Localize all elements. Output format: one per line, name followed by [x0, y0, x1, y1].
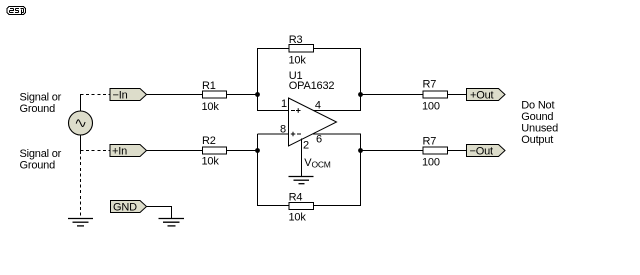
- wire: source bottom stub: [80, 135, 82, 152]
- wire: dashed to -In tag: [81, 94, 111, 96]
- resistor R3 10k: [289, 34, 314, 67]
- svg-text:10k: 10k: [202, 101, 220, 113]
- svg-text:4: 4: [315, 99, 321, 111]
- svg-text:Ground: Ground: [20, 103, 56, 115]
- svg-text:−Out: −Out: [470, 145, 493, 157]
- wire: R1 to node A: [227, 94, 258, 96]
- svg-text:Do Not: Do Not: [521, 99, 554, 111]
- wire: R7 to +Out tag: [448, 94, 467, 96]
- resistor R4 10k: [289, 191, 314, 223]
- ground (below source, dashed): [68, 219, 93, 226]
- svg-text:R7: R7: [423, 135, 437, 147]
- svg-text:Signal or: Signal or: [20, 148, 62, 160]
- svg-text:R2: R2: [202, 135, 216, 147]
- port tag +In: [110, 145, 147, 158]
- wire: pin4 output wire: [314, 110, 362, 112]
- node A junction dot: [255, 92, 260, 97]
- port tag -In: [110, 89, 147, 102]
- wire: pin6 output wire: [313, 133, 361, 135]
- wire: +In tag to R2: [147, 150, 203, 152]
- node (bottom right) junction dot: [358, 148, 363, 153]
- resistor R2 10k: [202, 135, 227, 167]
- label U1 OPA1632: [289, 70, 335, 92]
- label: Signal or Ground (lower input): [20, 148, 62, 172]
- svg-text:R7: R7: [423, 79, 437, 91]
- ground (VOCM): [289, 177, 314, 184]
- svg-text:Unused: Unused: [521, 122, 558, 134]
- ground (GND tag): [159, 219, 185, 226]
- svg-text:R1: R1: [202, 80, 216, 92]
- ESP logo: [7, 7, 25, 15]
- svg-text:10k: 10k: [289, 54, 307, 66]
- svg-text:100: 100: [422, 100, 440, 112]
- wire: pin1 input wire: [258, 110, 289, 112]
- svg-text:2: 2: [303, 140, 309, 152]
- wire: pin8 input wire: [258, 133, 289, 135]
- op-amp U1 OPA1632: [289, 98, 337, 146]
- svg-text:8: 8: [280, 124, 286, 136]
- svg-text:−In: −In: [113, 89, 128, 101]
- wire: R2 to node B: [227, 150, 258, 152]
- svg-text:10k: 10k: [289, 211, 307, 223]
- wire: R7 to -Out tag: [448, 150, 467, 152]
- svg-text:R4: R4: [289, 191, 303, 203]
- wire: bottom feedback loop (R4 loop): [258, 134, 361, 206]
- wire: -In tag to R1: [147, 94, 203, 96]
- source V1 (signal source circle with sine): [69, 111, 93, 135]
- svg-text:Output: Output: [521, 134, 553, 146]
- svg-text:OPA1632: OPA1632: [289, 80, 335, 92]
- wire: top node to R7: [361, 94, 424, 96]
- resistor R1 10k: [202, 80, 227, 113]
- node (top right) junction dot: [358, 92, 363, 97]
- wire: top feedback loop (R3 loop): [258, 48, 361, 111]
- svg-text:+Out: +Out: [470, 89, 493, 101]
- resistor R7 100 (bottom): [422, 135, 448, 168]
- svg-text:Ground: Ground: [20, 159, 56, 171]
- svg-text:Gound: Gound: [521, 111, 553, 123]
- port tag +Out: [467, 89, 506, 102]
- wire: GND tag to ground: [147, 207, 172, 219]
- svg-text:6: 6: [316, 134, 322, 146]
- wire: dashed down to ground: [80, 151, 82, 218]
- resistor R7 100 (top): [422, 79, 448, 113]
- wire: pin2 VOCM wire: [301, 139, 303, 177]
- svg-text:+In: +In: [112, 145, 127, 157]
- svg-text:Signal or: Signal or: [20, 91, 62, 103]
- wire: dashed to +In tag: [81, 150, 111, 152]
- svg-text:GND: GND: [113, 201, 137, 213]
- svg-text:R3: R3: [289, 34, 303, 46]
- wire: source top stub: [80, 94, 82, 112]
- svg-text:1: 1: [281, 98, 287, 110]
- wire: left vertical to bottom loop: [257, 134, 259, 206]
- svg-text:10k: 10k: [202, 155, 220, 167]
- label: Signal or Ground (upper input): [20, 91, 62, 115]
- wire: bottom node to R7: [361, 150, 424, 152]
- port tag GND: [111, 201, 147, 214]
- note: Do Not Gound Unused Output: [521, 99, 558, 146]
- port tag -Out: [467, 145, 506, 158]
- svg-text:100: 100: [422, 156, 440, 168]
- node B junction dot: [255, 148, 260, 153]
- svg-text:VOCM: VOCM: [304, 157, 330, 170]
